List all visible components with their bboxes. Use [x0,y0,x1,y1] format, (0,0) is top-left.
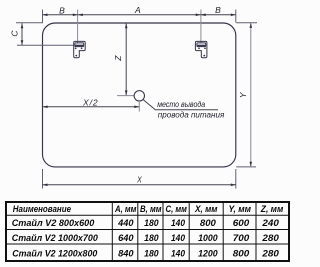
svg-text:700: 700 [233,233,250,243]
extension line left edge (top dim) [42,10,44,23]
arrow X/2 left [43,106,48,109]
svg-text:1000: 1000 [198,233,218,243]
table vertical line c4 [188,202,190,261]
arrow at left edge [43,14,48,17]
right bracket holes [204,47,206,49]
svg-text:140: 140 [171,218,186,228]
arrows at left bracket [73,14,83,17]
extension line left bracket (top dim) [77,10,79,44]
svg-text:640: 640 [118,233,134,243]
wire outlet circle [134,91,144,101]
svg-text:Стайл V2 800х600: Стайл V2 800х600 [12,217,95,228]
extension bottom edge to the right (Y dim) [236,166,256,168]
svg-text:Y: Y [238,91,248,98]
dimension line Y [250,23,252,167]
svg-text:X, мм: X, мм [194,204,218,214]
svg-text:140: 140 [171,233,186,243]
arrow at right edge [231,14,236,17]
table vertical line c5 [222,202,224,261]
svg-text:B, мм: B, мм [140,204,162,214]
svg-text:провода питания: провода питания [158,110,225,119]
extension left edge down (X dim) [42,169,44,189]
svg-text:C: C [9,30,19,37]
svg-text:600: 600 [233,218,250,228]
svg-text:B: B [215,5,221,15]
arrow Y bottom [250,162,253,167]
dimension line X/2 [43,106,139,108]
arrow Z top [125,23,128,28]
svg-text:Стайл V2 1200х800: Стайл V2 1200х800 [12,247,98,258]
left bracket holes [75,47,77,49]
extension top edge to the right (Y dim) [236,22,257,24]
svg-text:840: 840 [118,248,134,258]
svg-text:Z, мм: Z, мм [260,204,284,214]
svg-text:C, мм: C, мм [165,204,187,214]
arrow C bottom [21,40,24,45]
extension line right bracket (top dim) [200,10,202,44]
mirror body outline [43,23,236,167]
dimension line Z [125,23,127,95]
svg-text:440: 440 [117,218,134,228]
extension line at circle level (Z dim) [117,95,134,97]
arrows at right bracket [196,14,206,17]
dimension line B A B [43,14,236,16]
svg-text:Наименование: Наименование [13,204,71,214]
svg-text:240: 240 [261,218,280,228]
left bracket slot [75,43,84,47]
svg-text:Z: Z [113,55,123,62]
svg-text:280: 280 [261,233,280,243]
svg-text:800: 800 [200,218,217,228]
svg-text:Стайл V2 1000х700: Стайл V2 1000х700 [12,232,99,243]
svg-text:180: 180 [144,218,159,228]
svg-text:Y, мм: Y, мм [229,204,252,214]
svg-text:180: 180 [144,233,159,243]
arrow Z bottom [125,90,128,95]
svg-text:X/2: X/2 [82,97,98,107]
leader line to wire outlet [143,99,218,109]
arrow X/2 right [134,106,139,109]
right bracket outline [195,41,207,57]
svg-text:280: 280 [261,248,280,258]
left bracket outline [74,41,86,57]
svg-text:место вывода: место вывода [157,100,205,109]
table horizontal line row2 [6,243,289,245]
svg-text:X: X [136,174,142,184]
extension line right edge (top dim) [235,10,237,23]
table horizontal line row1 [6,229,289,231]
arrow C top [21,23,24,28]
svg-text:A, мм: A, мм [114,204,136,214]
svg-text:140: 140 [171,248,186,258]
table vertical line c1 [111,202,113,261]
svg-text:1200: 1200 [198,248,218,258]
arrow X right [231,184,236,187]
table vertical line c2 [137,202,139,261]
extension below circle (X/2 dim) [138,101,140,111]
table horizontal line header [6,214,289,216]
table outer border [6,202,289,261]
svg-text:800: 800 [233,248,250,258]
arrow Y top [250,23,253,28]
svg-text:180: 180 [144,248,159,258]
left bracket slot bar [75,45,83,47]
extension at bracket level (C dim) [17,44,74,46]
right bracket slot bar [197,45,205,47]
table vertical line c3 [162,202,164,261]
right bracket slot [197,43,206,47]
dimension line C [21,23,23,45]
extension of top edge to the left (C dim) [16,22,43,24]
svg-text:B: B [59,5,65,15]
svg-text:A: A [134,5,141,15]
table vertical line c6 [255,202,257,261]
dimension line X [43,184,236,186]
extension right edge down (X dim) [235,169,237,189]
arrow X left [43,184,48,187]
